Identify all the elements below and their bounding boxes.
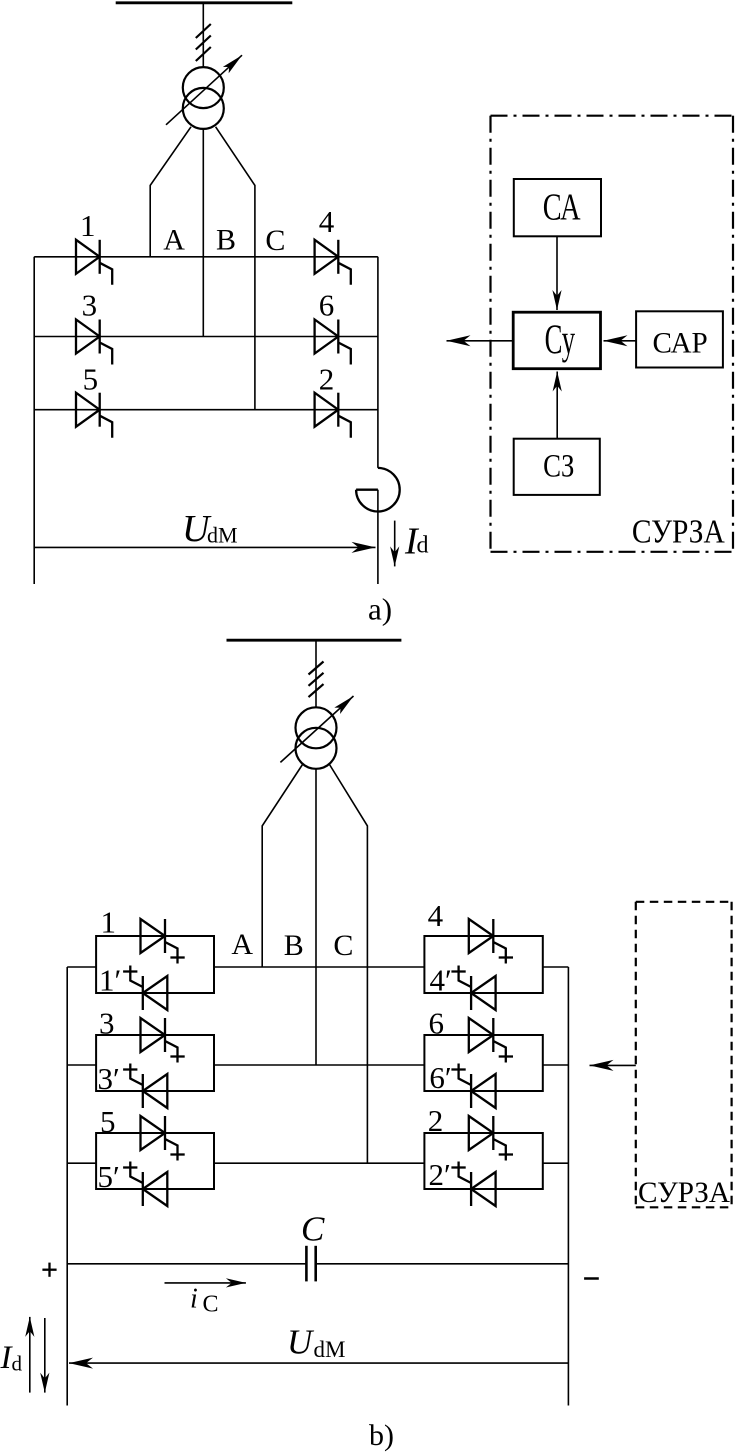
wire row 1 left segment (b) [67, 966, 96, 968]
thyristor 3 [141, 1018, 178, 1063]
wire right bus lower (a) [377, 490, 379, 584]
label 3 [82, 287, 98, 322]
label 1 [80, 208, 96, 243]
wire row 2 left segment (b) [67, 1064, 96, 1066]
label iC [190, 1283, 219, 1317]
thyristor module box 6/6 [424, 1035, 542, 1091]
svg-text:СУРЗА: СУРЗА [638, 1176, 730, 1209]
capacitor wire right segment (b) [316, 1263, 569, 1265]
wire left bus (a) [33, 257, 35, 584]
svg-text:3′: 3′ [98, 1061, 120, 1096]
wire row 3 right segment (b) [543, 1162, 569, 1164]
svg-text:4: 4 [428, 898, 444, 933]
gate plus sign of 1 [170, 956, 184, 958]
svg-text:C: C [265, 224, 285, 257]
svg-text:Су: Су [545, 318, 576, 364]
thyristor VS1 [76, 240, 112, 285]
svg-text:b): b) [369, 1419, 394, 1452]
thyristor module box 4/4 [424, 936, 542, 993]
gate plus sign of 3 [123, 1068, 137, 1070]
disconnect slashes (a) [196, 24, 211, 61]
dashed enclosure SURZA (b) [636, 902, 732, 1208]
gate plus sign of 6 [451, 1068, 465, 1070]
label SURZA (a) [632, 513, 725, 550]
wire phase A (b) [262, 765, 302, 968]
label 6 [429, 1060, 451, 1095]
plus terminal (b) [42, 1263, 56, 1277]
gate plus sign of 5 [170, 1153, 184, 1155]
label Udm (a) [182, 508, 238, 550]
wire left bus (b) [66, 967, 68, 1406]
wire row 1 right segment (b) [543, 966, 569, 968]
label Udm (b) [287, 1323, 345, 1362]
arrow Id up (b) [29, 1317, 31, 1393]
node label C (b) [333, 929, 353, 962]
svg-text:d: d [12, 1352, 23, 1376]
label 2 [428, 1103, 444, 1138]
gate plus sign of 4 [451, 970, 465, 972]
svg-text:C: C [301, 1210, 325, 1249]
svg-text:6: 6 [429, 1006, 445, 1041]
label a) [368, 592, 392, 627]
svg-text:d: d [417, 533, 429, 559]
regulation arrow through transformer (b) [280, 696, 353, 762]
thyristor 3 [130, 1064, 167, 1109]
arrow SA to Su [556, 236, 558, 310]
svg-text:A: A [163, 224, 185, 257]
wire phase C (a) [216, 127, 255, 410]
svg-text:2′: 2′ [429, 1157, 451, 1192]
svg-text:B: B [284, 929, 304, 962]
thyristor 5 [141, 1116, 178, 1161]
capacitor C plates [306, 1246, 315, 1282]
thyristor VS6 [315, 320, 351, 365]
gate plus sign of 3 [170, 1055, 184, 1057]
wire right bus upper (a) [377, 257, 379, 468]
wire phase B (b) [315, 769, 317, 1065]
label 6 [319, 287, 335, 322]
svg-text:5′: 5′ [98, 1159, 120, 1194]
label 6 [429, 1006, 445, 1041]
block SA [514, 179, 601, 236]
svg-text:1′: 1′ [99, 963, 121, 998]
node label A (b) [231, 928, 253, 961]
svg-text:C: C [333, 929, 353, 962]
arrow iC [165, 1282, 246, 1284]
gate plus sign of 6 [499, 1055, 513, 1057]
svg-text:2: 2 [428, 1103, 444, 1138]
thyristor 2 [469, 1116, 506, 1161]
label 4 [428, 898, 444, 933]
arrow SAR to Su [604, 340, 637, 342]
thyristor 5 [130, 1162, 167, 1207]
thyristor module box 3/3 [96, 1035, 214, 1091]
label b) [369, 1419, 394, 1452]
wire row 1 middle segment (b) [214, 966, 424, 968]
thyristor VS4 [315, 240, 351, 285]
wire phase C (b) [330, 765, 368, 1164]
bus bar top (b) [227, 639, 402, 642]
label 4 [319, 204, 335, 239]
label 5 [98, 1159, 120, 1194]
svg-text:2: 2 [319, 362, 335, 397]
wire anode row 3 (a) [34, 409, 378, 411]
dash-dot enclosure SURZA (a) [491, 116, 734, 552]
wire anode row 2 (a) [34, 336, 378, 338]
wire row 2 right segment (b) [543, 1064, 569, 1066]
label 5 [100, 1104, 116, 1139]
label C capacitor [301, 1210, 325, 1249]
wire anode row 1 (a) [34, 256, 378, 258]
bus bar top (a) [116, 1, 293, 4]
svg-text:dM: dM [314, 1337, 346, 1362]
label 4 [430, 963, 452, 998]
svg-text:3: 3 [82, 287, 98, 322]
svg-text:4′: 4′ [430, 963, 452, 998]
thyristor module box 2/2 [424, 1133, 542, 1189]
disconnect slashes (b) [309, 662, 324, 698]
thyristor module box 5/5 [96, 1133, 214, 1189]
thyristor 6 [459, 1064, 496, 1109]
node label B (b) [284, 929, 304, 962]
svg-text:САР: САР [653, 326, 708, 359]
thyristor VS5 [76, 393, 112, 438]
feeder wire from bus (b) [315, 640, 317, 707]
svg-text:U: U [287, 1323, 315, 1362]
gate plus sign of 4 [499, 956, 513, 958]
svg-text:5: 5 [83, 362, 99, 397]
svg-text:СА: СА [543, 187, 581, 229]
thyristor module box 1/1 [96, 936, 214, 993]
svg-text:dM: dM [207, 523, 238, 548]
thyristor VS3 [76, 320, 112, 365]
label 3 [99, 1006, 115, 1041]
svg-text:B: B [216, 223, 236, 256]
label 5 [83, 362, 99, 397]
block SZ [514, 439, 600, 495]
arrow Udm (a) [34, 546, 375, 548]
label 2 [429, 1157, 451, 1192]
gate plus sign of 2 [499, 1153, 513, 1155]
gate plus sign of 2 [451, 1166, 465, 1168]
svg-text:a): a) [368, 592, 392, 627]
thyristor 1 [130, 966, 167, 1011]
svg-text:A: A [231, 928, 253, 961]
thyristor 1 [141, 919, 178, 964]
smoothing reactor L (a) [356, 468, 400, 512]
svg-text:СЗ: СЗ [543, 448, 574, 484]
thyristor 6 [469, 1018, 506, 1063]
thyristor VS2 [315, 393, 351, 438]
label 2 [319, 362, 335, 397]
arrow SZ to Su [556, 372, 558, 439]
block Su [513, 312, 600, 369]
feeder wire from bus (a) [202, 3, 204, 67]
node label A (a) [163, 224, 185, 257]
node label C (a) [265, 224, 285, 257]
arrow Id down (b) [44, 1318, 46, 1393]
wire row 3 left segment (b) [67, 1162, 96, 1164]
label Id (a) [404, 521, 429, 563]
wire row 3 middle segment (b) [214, 1162, 424, 1164]
wire right bus (b) [567, 967, 569, 1406]
svg-text:3: 3 [99, 1006, 115, 1041]
wire phase A (a) [150, 127, 191, 257]
svg-text:6′: 6′ [429, 1060, 451, 1095]
block SAR [636, 311, 723, 367]
wire row 2 middle segment (b) [214, 1064, 424, 1066]
svg-text:6: 6 [319, 287, 335, 322]
svg-text:1: 1 [80, 208, 96, 243]
svg-text:СУРЗА: СУРЗА [632, 513, 725, 550]
minus terminal (b) [584, 1277, 599, 1280]
arrow SURZA output (b) [590, 1064, 636, 1066]
regulation arrow through transformer (a) [166, 55, 242, 125]
thyristor 4 [469, 919, 506, 964]
label SURZA (b) [638, 1176, 730, 1209]
capacitor wire left segment (b) [67, 1263, 306, 1265]
label 3 [98, 1061, 120, 1096]
arrow Udm (b) [69, 1362, 568, 1364]
thyristor 4 [459, 966, 496, 1011]
label 1 [101, 905, 117, 940]
svg-text:5: 5 [100, 1104, 116, 1139]
thyristor 2 [459, 1162, 496, 1207]
regulating transformer T (a): two windings [183, 67, 224, 129]
svg-text:1: 1 [101, 905, 117, 940]
gate plus sign of 5 [123, 1166, 137, 1168]
arrow Id (a) [394, 521, 396, 567]
svg-text:4: 4 [319, 204, 335, 239]
label 1 [99, 963, 121, 998]
node label B (a) [216, 223, 236, 256]
arrow Su output (a) [447, 340, 514, 342]
svg-text:C: C [203, 1291, 219, 1317]
wire phase B (a) [202, 129, 204, 337]
regulating transformer T (b): two windings [296, 707, 337, 769]
label Id (b) [0, 1340, 23, 1376]
gate plus sign of 1 [123, 970, 137, 972]
svg-text:i: i [190, 1283, 198, 1314]
